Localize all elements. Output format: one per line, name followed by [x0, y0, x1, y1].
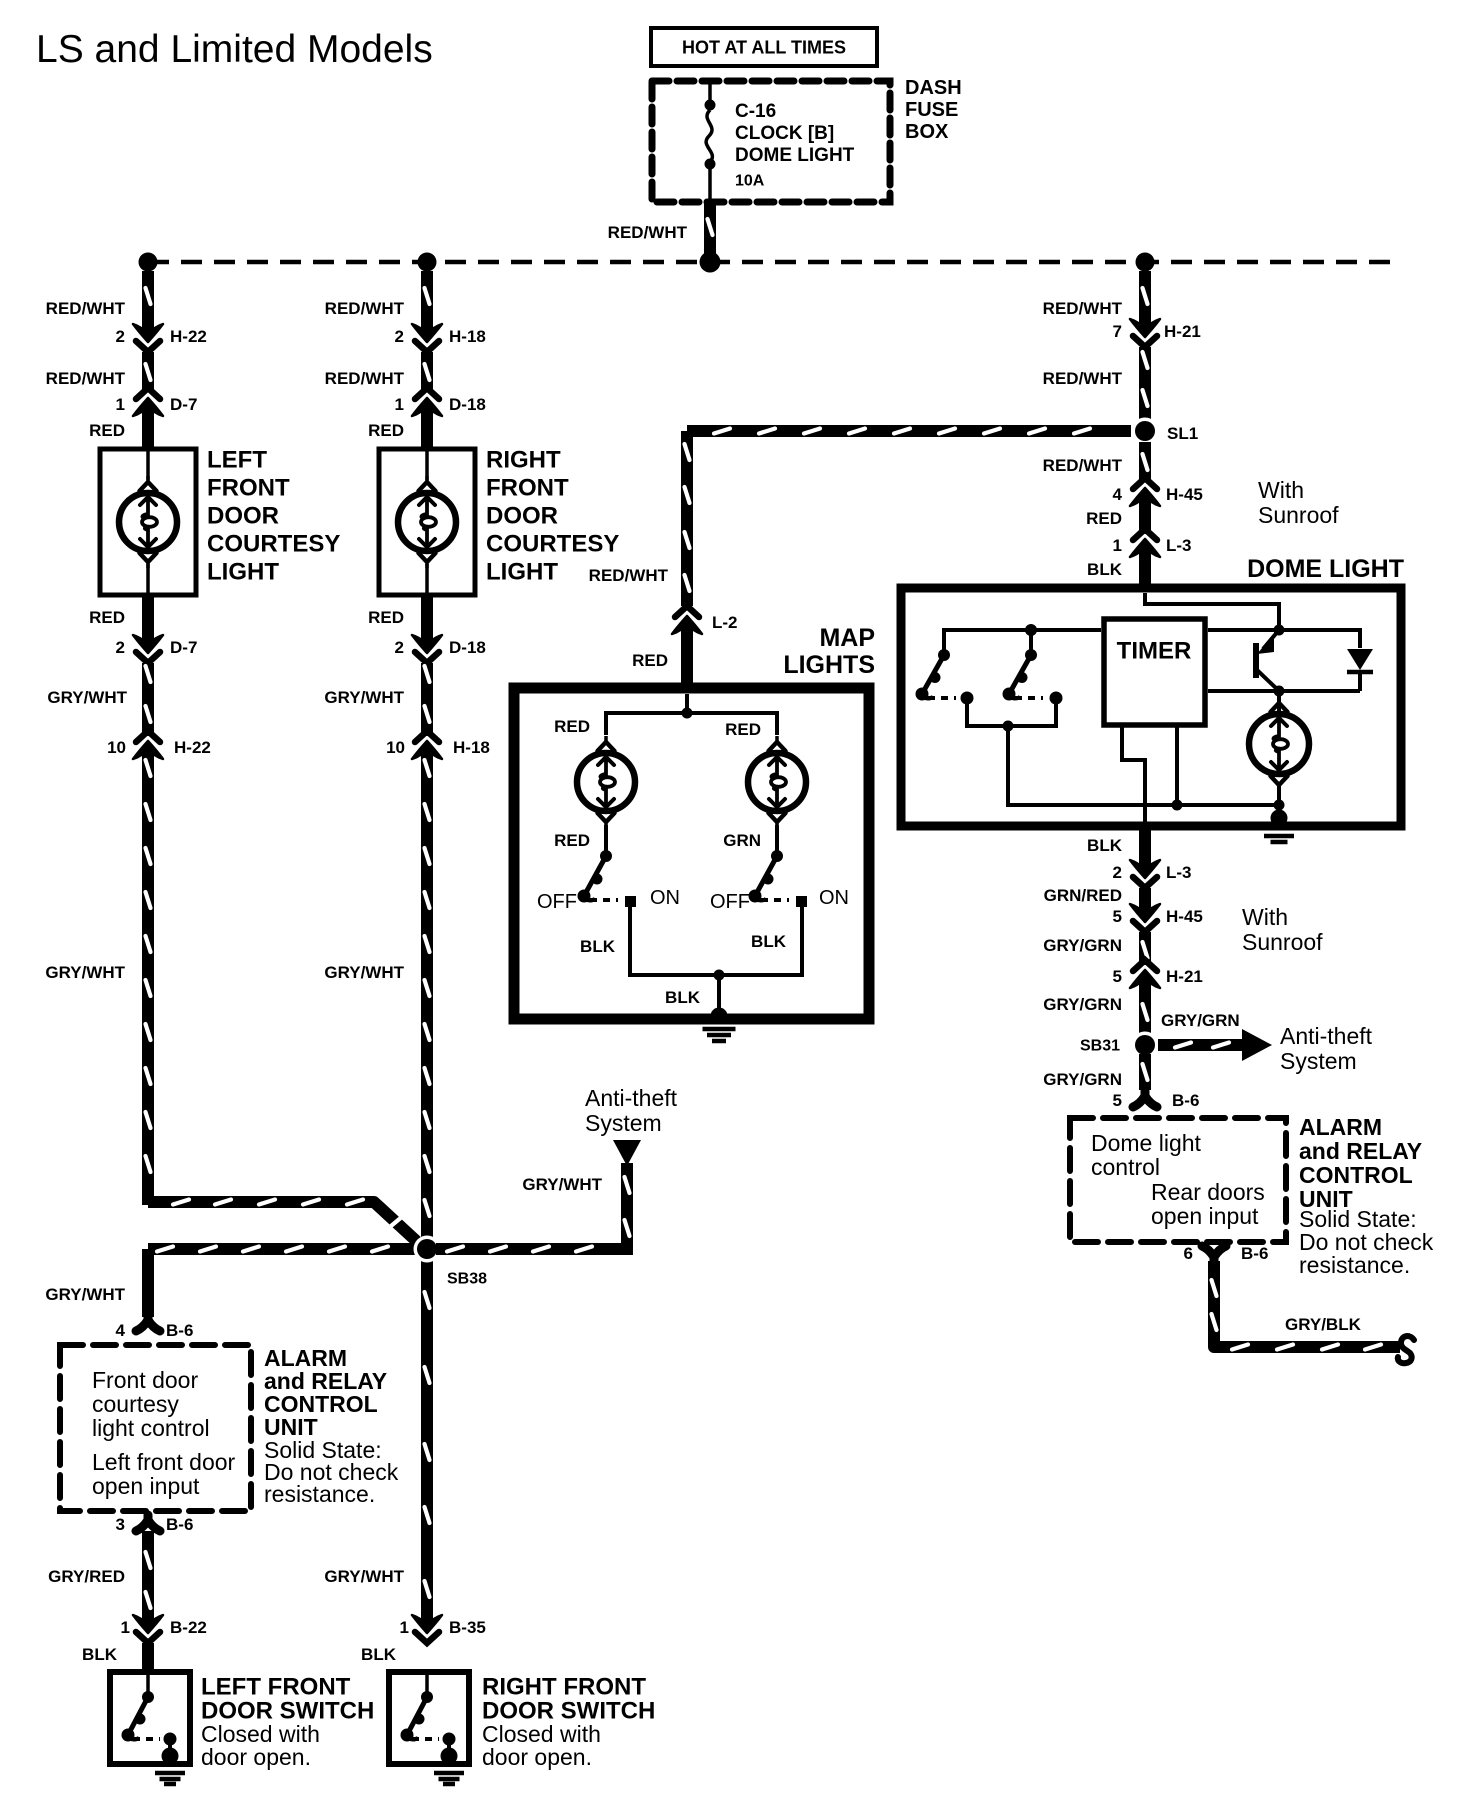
wire BLK into dome light	[1139, 556, 1151, 588]
alarm and relay control unit box left	[60, 1345, 251, 1511]
svg-text:H-45: H-45	[1166, 485, 1203, 504]
wire dome switch contacts join	[967, 698, 1056, 726]
wire to ground right door switch	[447, 1739, 451, 1752]
ground left door switch	[155, 1748, 185, 1785]
svg-text:courtesy: courtesy	[92, 1391, 179, 1417]
node SB31	[1132, 1032, 1159, 1059]
svg-text:LIGHTS: LIGHTS	[783, 651, 875, 679]
svg-text:GRN: GRN	[723, 831, 761, 850]
svg-text:LEFT: LEFT	[207, 447, 267, 474]
wire RED/WHT down to map lights	[685, 431, 690, 606]
dashed contact dome switch A	[928, 696, 956, 700]
wire GRY/WHT mid long	[425, 758, 430, 1621]
connector H-21 pin 5	[1130, 960, 1160, 992]
wire GRY/GRN 3	[1143, 1054, 1148, 1090]
svg-text:4: 4	[116, 1321, 126, 1340]
svg-text:GRY/WHT: GRY/WHT	[47, 688, 127, 707]
map lights box	[514, 688, 869, 1019]
switch lever dome switch B	[1003, 649, 1038, 701]
svg-text:10: 10	[386, 738, 405, 757]
node dome switch B tap	[1025, 624, 1037, 636]
svg-text:OFF: OFF	[537, 891, 577, 913]
lamp left map light	[577, 736, 635, 828]
svg-text:Rear doors: Rear doors	[1151, 1179, 1265, 1205]
svg-text:GRY/BLK: GRY/BLK	[1285, 1315, 1362, 1334]
right front door courtesy light box	[379, 449, 475, 595]
svg-text:5: 5	[1113, 1091, 1122, 1110]
anti-theft system triangle terminal	[613, 1140, 641, 1166]
connector B-35 pin 1	[412, 1611, 442, 1643]
wire GRY/WHT left short	[146, 663, 151, 736]
node bus mid-left	[418, 253, 437, 272]
ground map lights	[703, 1008, 736, 1042]
svg-text:DASH: DASH	[905, 77, 962, 99]
svg-text:L-3: L-3	[1166, 863, 1192, 882]
node SL1	[1132, 418, 1159, 445]
lamp right courtesy light	[398, 476, 456, 568]
node timer return	[1172, 800, 1183, 811]
svg-text:open input: open input	[1151, 1203, 1259, 1229]
connector B-22 pin 1	[133, 1611, 163, 1643]
wire dome switches feed	[944, 630, 1101, 654]
svg-text:open input: open input	[92, 1473, 200, 1499]
ground dome light	[1264, 810, 1294, 843]
wire dome lamp to ground node	[1277, 785, 1281, 804]
connector L-2	[672, 606, 702, 638]
left front door courtesy light box	[100, 449, 196, 595]
contact ON left map switch	[625, 896, 636, 907]
svg-text:D-18: D-18	[449, 638, 486, 657]
connector H-45 pin 4	[1130, 478, 1160, 510]
svg-text:Dome light: Dome light	[1091, 1130, 1202, 1156]
svg-text:2: 2	[395, 327, 404, 346]
svg-text:Front door: Front door	[92, 1367, 198, 1393]
contact right door switch	[443, 1733, 456, 1746]
wire switches common to lamp return	[1008, 726, 1276, 805]
svg-text:System: System	[585, 1110, 662, 1136]
wire fuse output inside box	[708, 169, 712, 199]
diode D1	[1347, 649, 1373, 691]
svg-text:4: 4	[1113, 485, 1123, 504]
wire RED/WHT right 3	[1143, 442, 1148, 482]
wire GRY/GRN 2	[1143, 987, 1148, 1036]
svg-text:H-45: H-45	[1166, 907, 1203, 926]
svg-text:DOME LIGHT: DOME LIGHT	[735, 145, 855, 166]
wire RED into map lights	[681, 633, 693, 688]
svg-text:L-2: L-2	[712, 613, 738, 632]
contact ON right map switch	[796, 896, 807, 907]
svg-text:H-18: H-18	[453, 738, 490, 757]
svg-text:Sunroof: Sunroof	[1242, 929, 1323, 955]
node dome switches common	[1003, 721, 1014, 732]
wire inside left courtesy light	[146, 451, 150, 480]
svg-text:RED: RED	[368, 421, 404, 440]
node fuse bottom	[705, 159, 716, 170]
bus dashed line hot feed	[148, 260, 1400, 265]
fuse C-16 10A element	[706, 110, 712, 162]
wire dome feed inside	[1145, 593, 1279, 626]
wire RED/WHT from fuse to bus	[708, 202, 713, 258]
svg-text:FRONT: FRONT	[486, 475, 569, 502]
svg-text:RED/WHT: RED/WHT	[1043, 369, 1123, 388]
wire right ON contact down	[800, 906, 804, 977]
ground right door switch	[434, 1748, 464, 1785]
wire right map lamp to switch	[775, 825, 779, 852]
wire collector node to diode	[1279, 630, 1360, 648]
svg-text:GRY/GRN: GRY/GRN	[1043, 936, 1122, 955]
svg-text:SB38: SB38	[447, 1271, 487, 1288]
connector H-18 pin 2	[412, 320, 442, 352]
svg-text:Sunroof: Sunroof	[1258, 502, 1339, 528]
wire to ground left door switch	[168, 1739, 172, 1752]
svg-text:Anti-theft: Anti-theft	[585, 1085, 678, 1111]
svg-text:2: 2	[395, 638, 404, 657]
wire dome lamp branch	[1277, 691, 1281, 712]
wire inside left door switch	[146, 1675, 150, 1694]
connector H-22 pin 2 left	[133, 320, 163, 352]
arrow to anti-theft system right	[1158, 1029, 1272, 1061]
switch lever dome switch A	[916, 649, 951, 701]
svg-text:3: 3	[116, 1515, 125, 1534]
svg-text:RED/WHT: RED/WHT	[1043, 456, 1123, 475]
svg-text:RED/WHT: RED/WHT	[325, 299, 405, 318]
node SB38	[414, 1236, 441, 1263]
node bus right	[1136, 253, 1155, 272]
svg-text:BLK: BLK	[580, 937, 616, 956]
wire map split horizontal	[606, 713, 777, 735]
svg-text:D-7: D-7	[170, 395, 197, 414]
wire map feed inside	[685, 694, 689, 713]
svg-text:and RELAY: and RELAY	[1299, 1138, 1422, 1164]
wire switch B tap down	[1029, 630, 1033, 652]
dome light box	[901, 588, 1401, 826]
svg-text:light control: light control	[92, 1415, 210, 1441]
dashed contact right map switch	[761, 898, 789, 902]
wire GRY/WHT mid short	[425, 663, 430, 736]
svg-text:GRY/GRN: GRY/GRN	[1043, 995, 1122, 1014]
alarm and relay control unit box right	[1070, 1118, 1286, 1242]
svg-text:SL1: SL1	[1167, 424, 1198, 443]
svg-text:GRY/WHT: GRY/WHT	[45, 1285, 125, 1304]
svg-text:7: 7	[1113, 322, 1122, 341]
svg-text:resistance.: resistance.	[1299, 1252, 1410, 1278]
svg-text:RED/WHT: RED/WHT	[46, 299, 126, 318]
svg-text:6: 6	[1184, 1244, 1193, 1263]
svg-text:GRY/GRN: GRY/GRN	[1161, 1011, 1240, 1030]
wire RED into right courtesy light	[421, 415, 433, 447]
svg-text:MAP: MAP	[819, 624, 875, 652]
wire emitter node to timer and diode	[1208, 689, 1360, 693]
svg-text:GRY/WHT: GRY/WHT	[324, 1567, 404, 1586]
svg-text:C-16: C-16	[735, 101, 776, 122]
wire GRY/WHT from SB38 to anti-theft	[436, 1247, 633, 1252]
wire RED below left courtesy light	[142, 597, 154, 636]
wire RED/WHT mid col top	[425, 271, 430, 325]
svg-text:2: 2	[1113, 863, 1122, 882]
wire inside right courtesy light	[425, 451, 429, 480]
svg-text:ALARM: ALARM	[1299, 1114, 1382, 1140]
connector H-21 pin 7	[1130, 315, 1160, 347]
wire fuse input	[708, 84, 712, 103]
svg-text:RIGHT FRONT: RIGHT FRONT	[482, 1674, 646, 1701]
wire RED/WHT horizontal to SL1	[687, 429, 1131, 434]
switch lever left door switch	[122, 1691, 155, 1742]
svg-text:GRY/GRN: GRY/GRN	[1043, 1070, 1122, 1089]
svg-text:D-7: D-7	[170, 638, 197, 657]
node dome lamp return	[1274, 800, 1285, 811]
connector D-7 pin 2	[133, 631, 163, 663]
node fuse top	[705, 100, 716, 111]
svg-text:B-6: B-6	[166, 1515, 193, 1534]
svg-text:B-6: B-6	[1172, 1091, 1199, 1110]
svg-text:door open.: door open.	[482, 1744, 592, 1770]
svg-text:OFF: OFF	[710, 891, 750, 913]
timer box	[1104, 619, 1205, 725]
node dome emitter	[1274, 686, 1285, 697]
dashed contact right door switch	[412, 1737, 439, 1741]
wire GRY/WHT horizontal upper and diagonal into SB38	[148, 1200, 425, 1250]
wire RED/WHT mid 2	[425, 352, 430, 392]
svg-text:H-22: H-22	[170, 327, 207, 346]
wire RED/WHT left col top	[146, 271, 151, 325]
svg-text:Anti-theft: Anti-theft	[1280, 1023, 1373, 1049]
terminal B-6 pin 3 fork	[136, 1515, 160, 1531]
lamp left courtesy light	[119, 476, 177, 568]
svg-text:RED/WHT: RED/WHT	[608, 223, 688, 242]
svg-text:D-18: D-18	[449, 395, 486, 414]
wire map ground stem	[717, 975, 721, 1014]
svg-text:H-21: H-21	[1164, 322, 1201, 341]
wire GRN/RED	[1139, 888, 1151, 905]
wire GRY/RED left	[146, 1531, 151, 1621]
svg-text:ON: ON	[650, 887, 680, 909]
switch lever right map switch	[749, 850, 784, 903]
svg-text:BLK: BLK	[82, 1645, 118, 1664]
svg-text:RED: RED	[89, 421, 125, 440]
svg-text:HOT AT ALL TIMES: HOT AT ALL TIMES	[682, 37, 846, 57]
svg-text:2: 2	[116, 327, 125, 346]
svg-text:DOOR: DOOR	[486, 503, 558, 530]
wire GRY/WHT up to anti-theft triangle	[625, 1163, 630, 1249]
svg-text:Left front door: Left front door	[92, 1449, 236, 1475]
svg-text:H-22: H-22	[174, 738, 211, 757]
svg-text:SB31: SB31	[1080, 1038, 1120, 1055]
switch lever right door switch	[401, 1691, 434, 1742]
svg-text:RED: RED	[554, 717, 590, 736]
connector D-7 pin 1	[133, 388, 163, 420]
svg-text:5: 5	[1113, 907, 1122, 926]
svg-text:CLOCK [B]: CLOCK [B]	[735, 123, 834, 144]
svg-text:GRY/WHT: GRY/WHT	[324, 688, 404, 707]
node dome collector	[1274, 625, 1285, 636]
lamp dome light	[1249, 697, 1309, 791]
svg-text:control: control	[1091, 1154, 1160, 1180]
wire timer bottom to return	[1175, 725, 1179, 805]
svg-text:CONTROL: CONTROL	[1299, 1162, 1413, 1188]
wire RED/WHT left col 2	[146, 352, 151, 392]
dashed contact left map switch	[590, 898, 618, 902]
contact dome switch A	[961, 692, 974, 705]
svg-text:GRY/WHT: GRY/WHT	[522, 1175, 602, 1194]
svg-text:RED: RED	[554, 831, 590, 850]
wire GRY/WHT down to alarm unit left	[142, 1249, 154, 1317]
lamp right map light	[748, 736, 806, 828]
svg-text:1: 1	[400, 1618, 409, 1637]
wire BLK below dome	[1139, 826, 1151, 861]
svg-text:COURTESY: COURTESY	[207, 531, 340, 558]
svg-text:System: System	[1280, 1048, 1357, 1074]
svg-text:With: With	[1242, 904, 1288, 930]
wire GRY/WHT left long	[146, 758, 151, 1205]
svg-text:With: With	[1258, 477, 1304, 503]
svg-text:RED/WHT: RED/WHT	[46, 369, 126, 388]
svg-text:LS and Limited Models: LS and Limited Models	[36, 28, 433, 71]
svg-text:1: 1	[121, 1618, 130, 1637]
right front door switch box	[389, 1672, 469, 1764]
wire RED/WHT right top	[1143, 271, 1148, 320]
connector H-45 pin 5	[1130, 900, 1160, 932]
svg-text:B-6: B-6	[1241, 1244, 1268, 1263]
svg-text:RED: RED	[632, 651, 668, 670]
svg-text:resistance.: resistance.	[264, 1481, 375, 1507]
connector L-3 pin 1	[1130, 529, 1160, 561]
svg-text:RED/WHT: RED/WHT	[589, 566, 669, 585]
wire timer output step to BLK exit	[1122, 725, 1145, 822]
transistor Q1	[1256, 630, 1279, 691]
svg-text:COURTESY: COURTESY	[486, 531, 619, 558]
svg-text:RED: RED	[89, 608, 125, 627]
connector L-3 pin 2	[1130, 856, 1160, 888]
wire GRY/GRN 1	[1143, 932, 1148, 965]
dashed contact left door switch	[133, 1737, 160, 1741]
svg-text:RIGHT: RIGHT	[486, 447, 561, 474]
connector H-18 pin 10	[412, 731, 442, 763]
svg-text:BLK: BLK	[665, 988, 701, 1007]
svg-text:RED/WHT: RED/WHT	[1043, 299, 1123, 318]
wire RED right	[1139, 505, 1151, 534]
svg-text:RED: RED	[725, 720, 761, 739]
svg-text:ON: ON	[819, 887, 849, 909]
svg-text:B-35: B-35	[449, 1618, 486, 1637]
svg-text:1: 1	[116, 395, 125, 414]
wire RED below right courtesy light	[421, 597, 433, 636]
svg-text:GRY/WHT: GRY/WHT	[45, 963, 125, 982]
svg-text:H-18: H-18	[449, 327, 486, 346]
svg-text:BOX: BOX	[905, 121, 949, 143]
wire GRY/BLK down and right	[1212, 1261, 1401, 1350]
wire collector node to timer	[1208, 628, 1279, 632]
svg-text:RED: RED	[1086, 509, 1122, 528]
left front door switch box	[110, 1672, 190, 1764]
wire left ON contact down	[630, 906, 802, 975]
dashed contact dome switch B	[1015, 696, 1043, 700]
svg-text:RED/WHT: RED/WHT	[325, 369, 405, 388]
terminal B-6 pin 6 fork	[1202, 1246, 1226, 1262]
svg-text:LIGHT: LIGHT	[207, 559, 279, 586]
wire GRY/BLK end hook	[1398, 1336, 1414, 1363]
svg-text:RED: RED	[368, 608, 404, 627]
svg-text:LEFT FRONT: LEFT FRONT	[201, 1674, 351, 1701]
svg-text:BLK: BLK	[751, 932, 787, 951]
node map feed split	[682, 708, 693, 719]
node bus left	[139, 253, 158, 272]
svg-text:DOME LIGHT: DOME LIGHT	[1247, 555, 1404, 583]
svg-text:L-3: L-3	[1166, 536, 1192, 555]
svg-text:B-22: B-22	[170, 1618, 207, 1637]
connector H-22 pin 10	[133, 731, 163, 763]
svg-text:10: 10	[107, 738, 126, 757]
dash fuse box outline	[652, 81, 890, 202]
node map ground junction	[714, 970, 725, 981]
svg-text:5: 5	[1113, 967, 1122, 986]
svg-text:GRY/WHT: GRY/WHT	[324, 963, 404, 982]
terminal B-6 pin 5 fork	[1133, 1091, 1157, 1107]
wire GRY/WHT horizontal lower from SB38	[148, 1247, 427, 1252]
svg-text:DOOR: DOOR	[207, 503, 279, 530]
wire RED into left courtesy light	[142, 415, 154, 447]
contact dome switch B	[1050, 692, 1063, 705]
wire BLK left switch	[142, 1643, 154, 1672]
svg-text:10A: 10A	[735, 173, 765, 190]
svg-text:BLK: BLK	[1087, 836, 1123, 855]
terminal B-6 pin 4 fork	[136, 1315, 160, 1331]
svg-text:2: 2	[116, 638, 125, 657]
node bus fuse	[700, 252, 721, 273]
svg-text:1: 1	[1113, 536, 1122, 555]
svg-text:B-6: B-6	[166, 1321, 193, 1340]
svg-text:FRONT: FRONT	[207, 475, 290, 502]
wire RED/WHT right 2	[1143, 347, 1148, 420]
svg-text:TIMER: TIMER	[1117, 638, 1192, 665]
svg-text:1: 1	[395, 395, 404, 414]
svg-text:BLK: BLK	[1087, 560, 1123, 579]
wire left map lamp to switch	[604, 825, 608, 852]
svg-text:door open.: door open.	[201, 1744, 311, 1770]
power tag HOT AT ALL TIMES box	[651, 28, 877, 66]
contact left door switch	[164, 1733, 177, 1746]
switch lever left map switch	[578, 850, 613, 903]
svg-text:BLK: BLK	[361, 1645, 397, 1664]
svg-text:GRY/RED: GRY/RED	[48, 1567, 125, 1586]
svg-text:LIGHT: LIGHT	[486, 559, 558, 586]
svg-text:FUSE: FUSE	[905, 99, 958, 121]
connector D-18 pin 1	[412, 388, 442, 420]
connector D-18 pin 2	[412, 631, 442, 663]
svg-text:H-21: H-21	[1166, 967, 1203, 986]
svg-text:GRN/RED: GRN/RED	[1044, 886, 1122, 905]
wire inside right door switch	[425, 1675, 429, 1694]
